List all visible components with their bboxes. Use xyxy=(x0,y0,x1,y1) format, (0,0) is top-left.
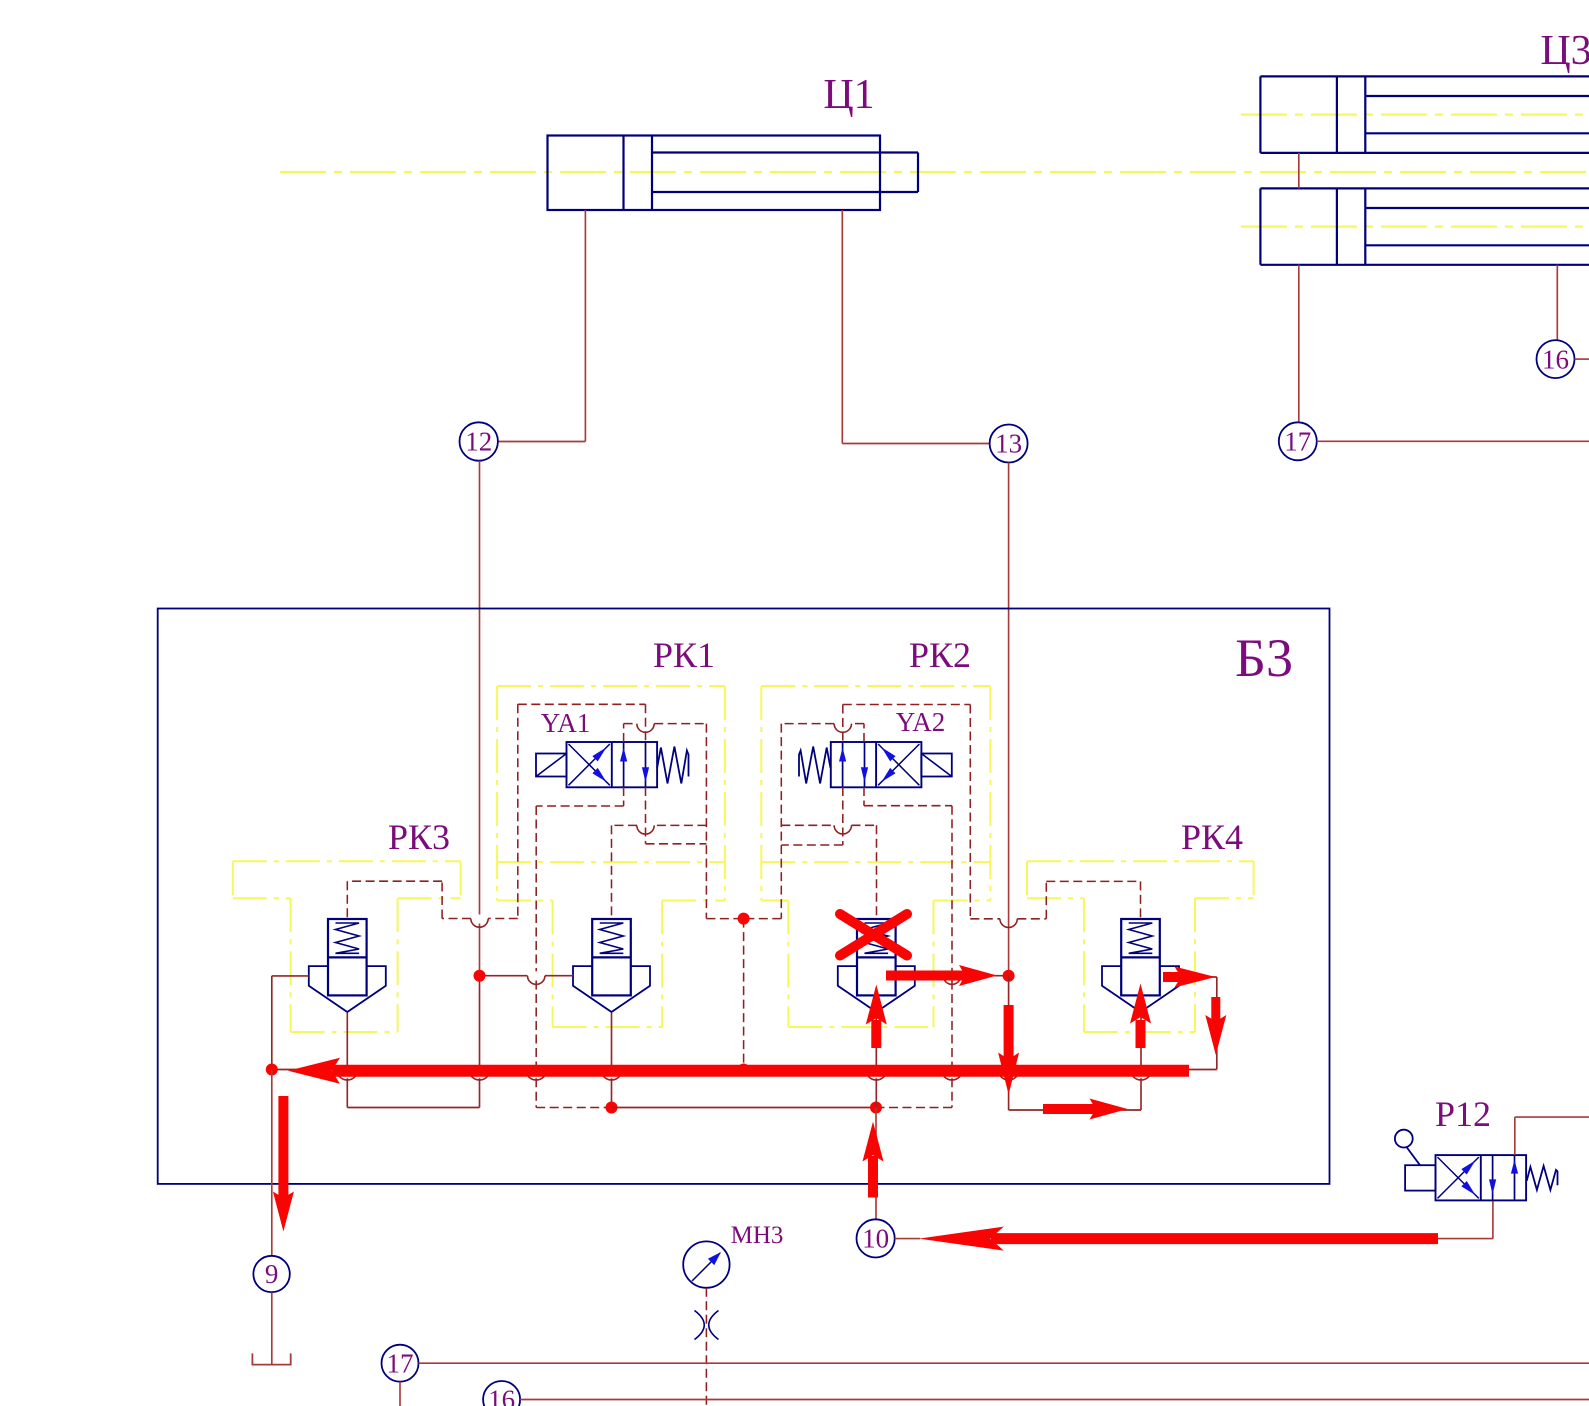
wire node 13 down into block xyxy=(1008,463,1010,976)
spring YA1 xyxy=(657,747,688,784)
node 12 xyxy=(460,422,498,460)
wire line 17 xyxy=(419,1362,1589,1364)
pilot YA2 port A line xyxy=(744,724,864,919)
outline РК3 boundary xyxy=(233,861,461,1032)
label Р12 xyxy=(1435,1094,1491,1134)
node 13 xyxy=(990,425,1028,463)
cross-out РК2 closed xyxy=(840,914,907,956)
centerline cylinder C3 lower xyxy=(1241,226,1589,228)
junction dot node13 line xyxy=(1003,970,1015,982)
junction dot pilot T xyxy=(738,913,750,925)
label МН3 xyxy=(731,1222,784,1249)
solenoid YA1 coil xyxy=(536,754,567,777)
spring Р12 xyxy=(1527,1166,1558,1190)
flow arrow down to node 9 xyxy=(273,1096,294,1232)
node 10 xyxy=(857,1219,895,1257)
flow arrow down node13 line xyxy=(998,1005,1019,1095)
wire Ц3 interconnect xyxy=(1298,153,1300,189)
flow arrow to node 10 xyxy=(919,1227,1438,1251)
flow arrow down РК4 right xyxy=(1205,997,1226,1055)
svg-text:13: 13 xyxy=(995,429,1022,459)
wire РК3 left port xyxy=(272,976,309,1070)
svg-text:РК2: РК2 xyxy=(909,635,971,675)
svg-text:17: 17 xyxy=(387,1348,414,1378)
valve YA1 body xyxy=(567,742,658,787)
wire РК2 right port xyxy=(915,976,1009,985)
block Б3 enclosure xyxy=(158,609,1330,1184)
label РК1 xyxy=(653,635,715,675)
label РК4 xyxy=(1181,817,1243,857)
node 17 bottom xyxy=(382,1345,419,1382)
wire node 17 to right edge xyxy=(1317,440,1589,442)
svg-text:РК4: РК4 xyxy=(1181,817,1243,857)
wire Р12 top to right edge xyxy=(1515,1117,1589,1155)
wire drain to node 10 xyxy=(875,1108,877,1220)
wire node 10 to Р12 xyxy=(895,1201,1493,1239)
wire line 16 xyxy=(520,1399,1589,1401)
wire node 12 down to junction xyxy=(479,461,481,976)
wire РК1 left port xyxy=(480,976,574,985)
flow arrow up from node 10 xyxy=(863,1122,884,1198)
wire РК4 right port xyxy=(1179,977,1217,1070)
svg-text:Б3: Б3 xyxy=(1235,628,1293,688)
valve YA2 body xyxy=(831,742,922,787)
svg-text:МН3: МН3 xyxy=(731,1222,784,1249)
restrictor symbol xyxy=(695,1311,719,1340)
svg-text:10: 10 xyxy=(862,1224,889,1254)
lever Р12 xyxy=(1395,1130,1436,1191)
valve Р12 body xyxy=(1436,1155,1527,1200)
pilot YA1 upper box xyxy=(518,704,646,918)
tank drain symbol xyxy=(252,1353,290,1364)
label РК3 xyxy=(388,817,450,857)
cylinder Ц3 lower xyxy=(1260,188,1589,264)
svg-text:Ц3: Ц3 xyxy=(1540,28,1589,74)
label Ц1 xyxy=(823,72,874,118)
label Ц3 xyxy=(1540,28,1589,74)
svg-text:РК3: РК3 xyxy=(388,817,450,857)
outline РК4 boundary xyxy=(1027,861,1254,1032)
wire Ц1 left port to node 12 xyxy=(498,210,586,442)
wire node 9 to tank xyxy=(271,1292,273,1364)
svg-text:16: 16 xyxy=(488,1385,515,1406)
svg-text:YA1: YA1 xyxy=(541,708,591,738)
flow arrow up РК4 apex xyxy=(1130,984,1151,1049)
cartridge РК3 xyxy=(309,919,386,1012)
svg-text:РК1: РК1 xyxy=(653,635,715,675)
cylinder Ц3 upper xyxy=(1260,76,1589,152)
label Б3 xyxy=(1235,628,1293,688)
junction dot L1 left xyxy=(606,1102,618,1114)
cartridge РК4 xyxy=(1102,919,1179,1012)
pilot YA2 to РК4 spring xyxy=(970,881,1140,927)
pilot YA1 port B lower stub xyxy=(646,787,707,844)
label YA2 xyxy=(896,707,946,737)
outline РК2 boundary xyxy=(761,686,990,1027)
flow arrow right РК4 port xyxy=(1163,967,1215,988)
wire Ц3 lower left port to node 17 xyxy=(1298,265,1300,423)
pilot branch to РК2 spring xyxy=(781,825,876,919)
cartridge РК1 xyxy=(573,919,650,1012)
centerline cylinder C3 upper xyxy=(1241,113,1589,115)
pilot YA1 port A line xyxy=(624,724,744,919)
node 16 top xyxy=(1537,340,1575,378)
svg-text:16: 16 xyxy=(1542,344,1569,374)
centerline main axis xyxy=(280,171,1589,173)
junction dot bus left xyxy=(266,1064,278,1076)
junction dot L1 right xyxy=(870,1102,882,1114)
label РК2 xyxy=(909,635,971,675)
svg-text:Ц1: Ц1 xyxy=(823,72,874,118)
wire Ц1 right port to node 13 xyxy=(842,210,989,444)
spring YA2 xyxy=(799,747,831,784)
wire pressure bus xyxy=(272,1069,1217,1071)
wire Ц3 lower right port to node 16 xyxy=(1556,265,1558,340)
outline РК1 boundary xyxy=(497,686,725,1027)
cartridge РК2 xyxy=(838,919,915,1012)
pilot center junction xyxy=(743,919,745,1064)
flow arrow right drain elbow xyxy=(1043,1099,1128,1120)
pilot branch to РК1 spring xyxy=(612,825,707,919)
junction dot pilot on bus xyxy=(738,1064,750,1076)
pilot YA1 to РК3 spring xyxy=(347,881,518,927)
label YA1 xyxy=(541,708,591,738)
cylinder Ц1 xyxy=(548,136,919,211)
svg-text:12: 12 xyxy=(465,427,492,457)
junction dot node12 line xyxy=(474,970,486,982)
flow arrow up РК2 apex xyxy=(866,985,887,1049)
wire РК4 apex riser xyxy=(1131,1013,1152,1110)
wire РК3 apex to junction riser xyxy=(337,976,490,1108)
wire РК1 apex down xyxy=(601,1013,622,1108)
svg-text:Р12: Р12 xyxy=(1435,1094,1491,1134)
wire node 17 stub down xyxy=(399,1382,401,1406)
gauge МН3 xyxy=(683,1241,729,1287)
pilot YA1 drain line xyxy=(526,787,624,1108)
wire drain header L1 xyxy=(612,1107,877,1109)
pilot YA2 drain line xyxy=(864,787,963,1108)
wire bus left to node 9 xyxy=(271,1070,273,1256)
svg-text:9: 9 xyxy=(265,1259,279,1289)
svg-text:17: 17 xyxy=(1284,427,1311,457)
wire node13 line to drain elbow xyxy=(998,976,1141,1110)
pilot YA2 port B lower stub xyxy=(781,787,843,845)
node 16 bottom xyxy=(483,1381,520,1406)
node 17 top xyxy=(1279,422,1317,460)
pilot line gauge xyxy=(705,1288,707,1406)
solenoid YA2 coil xyxy=(921,754,952,777)
node 9 xyxy=(253,1256,289,1292)
svg-text:YA2: YA2 xyxy=(896,707,946,737)
flow arrow bus left xyxy=(288,1058,1189,1084)
wire node 16 to right edge xyxy=(1575,358,1589,360)
flow arrow right РК2 port xyxy=(886,965,997,986)
pilot YA2 upper box xyxy=(843,705,971,919)
wire РК2 apex down xyxy=(866,1013,887,1108)
